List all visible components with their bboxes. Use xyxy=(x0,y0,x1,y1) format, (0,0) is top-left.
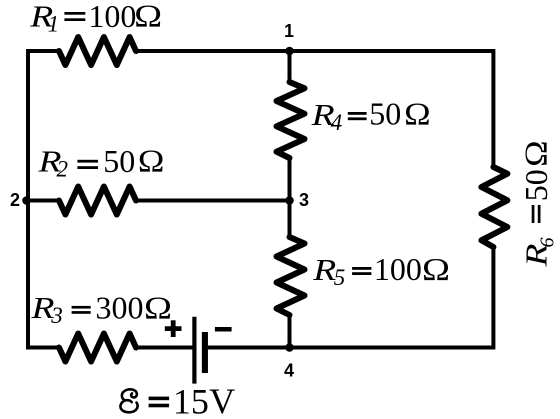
node 4 junction dot xyxy=(285,343,294,352)
resistor R5 xyxy=(277,237,305,315)
wire: top from R1 to node 1 xyxy=(136,49,290,53)
resistor R3 xyxy=(59,334,136,362)
wire: node 2 to R2 xyxy=(28,199,59,203)
label script-E EMF symbol xyxy=(120,389,137,412)
svg-text:1: 1 xyxy=(284,21,294,41)
battery plus sign xyxy=(165,320,182,337)
node 2 junction dot xyxy=(22,196,31,205)
node label 4 xyxy=(284,361,294,381)
battery EMF: left long plate (+) xyxy=(192,317,196,384)
svg-text:50: 50 xyxy=(369,95,401,131)
resistor R2 xyxy=(59,187,136,215)
label R5 = 100 ohm xyxy=(312,251,450,290)
svg-text:100: 100 xyxy=(88,0,136,34)
svg-text:3: 3 xyxy=(299,190,309,210)
label R6 = 50 ohm (rotated 90 deg) xyxy=(518,140,559,267)
label R2 = 50 ohm xyxy=(37,143,164,182)
node 3 junction dot xyxy=(285,196,294,205)
label R3 = 300 ohm xyxy=(30,289,172,328)
label R1 = 100 ohm xyxy=(29,0,162,37)
wire: top-left corner, left side, bottom-left stub xyxy=(28,51,59,348)
wire: R5 to node 4 xyxy=(288,315,292,349)
node label 2 xyxy=(10,190,20,210)
svg-text:6: 6 xyxy=(537,238,559,248)
node label 1 xyxy=(284,21,294,41)
svg-text:100: 100 xyxy=(374,251,422,287)
wire: R2 to node 3 xyxy=(136,199,290,203)
wire: right side below R6 to bottom-right corner, bottom to battery right plate xyxy=(208,247,493,348)
resistor R1 xyxy=(59,37,136,65)
wire: R4 to node 3 to R5 xyxy=(288,158,292,237)
svg-text:Ω: Ω xyxy=(404,96,431,132)
svg-text:50: 50 xyxy=(103,143,135,179)
svg-text:1: 1 xyxy=(48,12,60,37)
svg-text:Ω: Ω xyxy=(422,251,450,287)
wire: bottom between R3 and battery left plate xyxy=(136,346,193,350)
wire: top from node 1 to top-right corner, right side down to R6 xyxy=(290,51,494,167)
label R4 = 50 ohm xyxy=(310,95,430,135)
svg-text:Ω: Ω xyxy=(138,143,165,179)
svg-text:300: 300 xyxy=(96,290,144,326)
battery EMF: right short plate (-) xyxy=(202,332,208,373)
svg-text:5: 5 xyxy=(334,265,346,290)
svg-text:Ω: Ω xyxy=(518,140,554,167)
node 1 junction dot xyxy=(285,47,294,56)
battery minus sign xyxy=(215,327,232,332)
svg-text:Ω: Ω xyxy=(134,0,162,34)
label EMF = 15 V xyxy=(149,381,236,419)
svg-text:2: 2 xyxy=(57,157,69,182)
wire: middle vertical node 1 to R4 xyxy=(288,49,292,82)
node label 3 xyxy=(299,190,309,210)
svg-text:15: 15 xyxy=(173,382,209,419)
svg-text:V: V xyxy=(209,381,235,419)
svg-text:2: 2 xyxy=(10,190,20,210)
resistor R6 xyxy=(481,167,507,247)
svg-text:Ω: Ω xyxy=(144,289,172,325)
svg-text:4: 4 xyxy=(284,361,294,381)
svg-text:R: R xyxy=(312,252,336,287)
svg-text:50: 50 xyxy=(518,169,554,201)
resistor R4 xyxy=(277,82,305,158)
svg-text:4: 4 xyxy=(331,110,343,135)
svg-text:3: 3 xyxy=(50,303,63,328)
